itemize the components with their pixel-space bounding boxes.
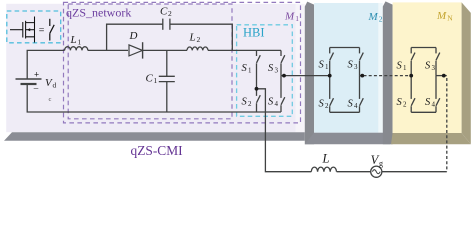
svg-text:M: M: [284, 11, 295, 23]
svg-text:2: 2: [379, 14, 383, 23]
svg-text:L: L: [70, 34, 77, 46]
svg-text:1: 1: [248, 67, 252, 75]
svg-text:3: 3: [432, 64, 436, 72]
svg-text:c: c: [49, 96, 52, 103]
svg-text:3: 3: [354, 63, 358, 71]
svg-text:S: S: [397, 60, 403, 71]
svg-text:4: 4: [432, 100, 436, 108]
svg-text:S: S: [397, 97, 403, 108]
svg-text:HBI: HBI: [243, 25, 265, 39]
svg-text:D: D: [129, 30, 138, 42]
svg-text:d: d: [53, 81, 57, 90]
svg-text:S: S: [268, 63, 274, 74]
svg-text:2: 2: [325, 102, 329, 110]
svg-text:L: L: [189, 31, 196, 43]
svg-text:N: N: [447, 14, 453, 23]
svg-text:4: 4: [275, 100, 279, 108]
svg-text:M: M: [436, 10, 447, 22]
svg-text:1: 1: [295, 14, 299, 23]
svg-text:1: 1: [78, 38, 82, 47]
svg-text:S: S: [268, 96, 274, 107]
svg-text:M: M: [368, 11, 379, 23]
svg-text:+: +: [34, 69, 39, 79]
svg-text:qZS-CMI: qZS-CMI: [131, 143, 183, 158]
svg-text:3: 3: [275, 67, 279, 75]
svg-text:S: S: [319, 98, 325, 109]
svg-text:S: S: [348, 60, 354, 71]
svg-text:S: S: [242, 96, 248, 107]
svg-text:–: –: [33, 83, 39, 93]
svg-text:S: S: [425, 60, 431, 71]
svg-text:2: 2: [168, 9, 172, 18]
svg-text:C: C: [160, 6, 168, 18]
svg-text:1: 1: [154, 76, 158, 85]
svg-text:S: S: [348, 98, 354, 109]
svg-text:L: L: [322, 151, 330, 165]
svg-text:S: S: [319, 60, 325, 71]
svg-text:=: =: [39, 26, 45, 37]
svg-text:qZS_network: qZS_network: [66, 5, 131, 19]
svg-text:2: 2: [403, 100, 407, 108]
svg-text:1: 1: [325, 63, 329, 71]
svg-text:S: S: [425, 97, 431, 108]
svg-text:1: 1: [403, 64, 407, 72]
svg-text:2: 2: [197, 35, 201, 44]
svg-text:2: 2: [248, 100, 252, 108]
svg-text:g: g: [379, 159, 383, 168]
svg-text:4: 4: [354, 102, 358, 110]
svg-text:C: C: [146, 73, 154, 85]
svg-text:S: S: [242, 63, 248, 74]
